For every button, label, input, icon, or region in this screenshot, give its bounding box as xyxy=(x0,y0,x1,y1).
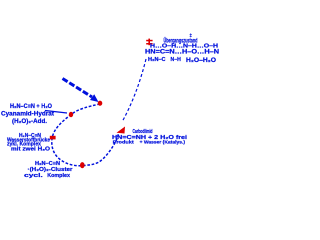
svg-text:N–H: N–H xyxy=(171,57,181,63)
svg-text:H₂O–H₂O: H₂O–H₂O xyxy=(186,58,216,64)
svg-text:Komplex: Komplex xyxy=(47,173,71,179)
svg-text:mit zwei H₂O: mit zwei H₂O xyxy=(11,147,50,153)
svg-text:HN=C=N…H–O…H–N: HN=C=N…H–O…H–N xyxy=(145,50,219,56)
svg-text:(H₂O)₂-Add.: (H₂O)₂-Add. xyxy=(12,119,47,125)
svg-text:H₂N–C≡N + H₂O: H₂N–C≡N + H₂O xyxy=(10,104,52,110)
svg-text:+ Wasser (Katalys.): + Wasser (Katalys.) xyxy=(140,140,186,146)
svg-text:Produkt: Produkt xyxy=(113,140,134,146)
svg-text:Cyanamid-Hydrat: Cyanamid-Hydrat xyxy=(1,111,54,117)
svg-text:H₂N–C: H₂N–C xyxy=(148,57,166,63)
svg-text:cycl.: cycl. xyxy=(24,173,43,179)
